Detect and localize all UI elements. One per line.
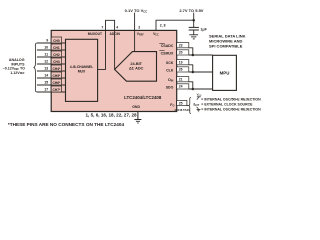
- wire analog input to pin 13 / CH4: [37, 70, 66, 72]
- svg-text:MUXOUT: MUXOUT: [88, 32, 102, 36]
- wire CSADC to junction: [189, 48, 193, 55]
- pin 10 number: [44, 46, 48, 50]
- pin name CH4* box: [51, 65, 61, 71]
- wire SCK to junction: [189, 65, 193, 72]
- svg-text:26: 26: [179, 68, 183, 72]
- pin 23 number box: [177, 43, 189, 48]
- svg-text:CH0: CH0: [53, 39, 60, 43]
- FO option 3 text: [201, 107, 261, 111]
- junction node: [192, 71, 195, 74]
- wire analog input to pin 15 / CH6: [37, 84, 66, 86]
- svg-text:14: 14: [44, 74, 48, 78]
- pin label MUXOUT: [88, 32, 102, 36]
- capacitor C1 1uF: [189, 27, 208, 31]
- pin name CH7* box: [51, 86, 61, 92]
- svg-text:1, 5, 6, 16, 18, 22, 27, 28: 1, 5, 6, 16, 18, 22, 27, 28: [86, 113, 138, 118]
- wire analog input to pin 12 / CH3: [37, 63, 66, 65]
- pin label ADCIN: [110, 32, 121, 36]
- node 2.7V TO 5.5V supply label: [179, 8, 203, 13]
- wire CLK to MPU: [189, 71, 213, 73]
- svg-text:9: 9: [46, 39, 48, 43]
- svg-text:0.1V TO VCC: 0.1V TO VCC: [125, 8, 148, 13]
- junction node: [192, 88, 195, 91]
- wire analog input to pin 17 / CH7: [37, 91, 66, 93]
- svg-text:1μF: 1μF: [200, 27, 207, 31]
- svg-text:25: 25: [179, 102, 183, 106]
- pin label VCC: [153, 32, 159, 36]
- ground symbol at capacitor: [189, 35, 198, 39]
- pin 13 number: [44, 67, 48, 71]
- svg-text:= INTERNAL OSC/50Hz REJECTION: = INTERNAL OSC/50Hz REJECTION: [201, 98, 261, 102]
- svg-text:SDO: SDO: [166, 85, 174, 89]
- pin label CLK: [166, 68, 174, 72]
- wire MUX output to MUXOUT pin 7: [98, 30, 106, 69]
- wire capacitor to ground: [193, 30, 195, 35]
- svg-text:CH7*: CH7*: [52, 88, 61, 92]
- svg-text:24: 24: [179, 85, 183, 89]
- svg-text:19: 19: [179, 61, 183, 65]
- svg-text:4: 4: [116, 26, 118, 30]
- svg-text:12: 12: [44, 60, 48, 64]
- svg-text:10: 10: [44, 46, 48, 50]
- wire SDO to MPU: [189, 88, 213, 90]
- node 0.1V TO VCC label: [125, 8, 148, 13]
- pin 20 number box: [177, 50, 189, 55]
- wire supply vertical: [193, 13, 195, 27]
- pin name CH2 box: [51, 51, 61, 57]
- wire analog input to pin 9 / CH0: [37, 42, 66, 44]
- pin name CH5* box: [51, 72, 61, 78]
- wire FO to options brace: [187, 105, 188, 107]
- svg-text:CSMUX: CSMUX: [161, 51, 174, 55]
- serial data link annotation: [209, 34, 246, 49]
- MPU U2: [213, 55, 237, 90]
- junction node: [192, 54, 195, 57]
- pin label SDO: [166, 85, 174, 89]
- svg-text:CH5*: CH5*: [52, 74, 61, 78]
- svg-text:15: 15: [44, 81, 48, 85]
- svg-text:11: 11: [44, 53, 48, 57]
- pin label GND: [132, 105, 140, 109]
- wire CSMUX to MPU: [189, 54, 213, 56]
- GND pin list: [86, 113, 138, 118]
- pin label CSADC: [159, 44, 173, 49]
- svg-text:VREF: VREF: [137, 32, 145, 36]
- ground symbol at GND pin: [134, 120, 141, 124]
- pin label VREF: [137, 32, 145, 36]
- adc block 24-BIT delta-sigma ADC: [115, 52, 157, 82]
- note NC pins on LTC2404: [8, 122, 125, 127]
- svg-text:= EXTERNAL CLOCK SOURCE: = EXTERNAL CLOCK SOURCE: [201, 102, 253, 106]
- svg-text:2.7V TO 5.5V: 2.7V TO 5.5V: [179, 8, 203, 13]
- svg-text:24-BITΔΣ ADC: 24-BITΔΣ ADC: [129, 62, 144, 70]
- svg-text:17: 17: [44, 88, 48, 92]
- wire external loop MUXOUT to ADCIN: [106, 20, 115, 30]
- pin 2, 8 number: [160, 24, 166, 28]
- pin name CH0 box: [51, 37, 61, 43]
- pin label DIN: [168, 78, 173, 82]
- wire GND pin to ground: [137, 112, 139, 120]
- svg-text:ANALOGINPUTS–0.12VREF TO1.12VR: ANALOGINPUTS–0.12VREF TO1.12VREF: [3, 58, 25, 75]
- pin label SCK: [166, 61, 174, 65]
- svg-text:ADCIN: ADCIN: [110, 32, 121, 36]
- svg-text:CSADC: CSADC: [161, 44, 174, 48]
- svg-text:DIN: DIN: [168, 78, 173, 82]
- wire analog input to pin 14 / CH5: [37, 77, 66, 79]
- svg-text:SCK: SCK: [166, 61, 174, 65]
- analog inputs annotation text: [3, 58, 25, 75]
- svg-text:CH2: CH2: [53, 53, 60, 57]
- svg-text:CH4*: CH4*: [52, 67, 61, 71]
- IC U1 LTC2404/LTC2408 body: [51, 30, 177, 111]
- pin 9 number: [46, 39, 48, 43]
- svg-text:7: 7: [101, 26, 103, 30]
- svg-text:13: 13: [44, 67, 48, 71]
- pin 26 number box: [177, 67, 189, 72]
- wire VREF pin 3 to ADC top: [134, 13, 136, 52]
- svg-text:23: 23: [179, 44, 183, 48]
- svg-text:20: 20: [179, 51, 183, 55]
- svg-text:CH3: CH3: [53, 60, 60, 64]
- IC name label LTC2404/LTC2408: [124, 95, 162, 100]
- pin name CH3 box: [51, 58, 61, 64]
- junction supply node: [192, 19, 195, 22]
- pin 12 number: [44, 60, 48, 64]
- pin 21 number box: [177, 77, 189, 82]
- svg-text:GND: GND: [132, 105, 140, 109]
- FO option VCC symbol: [197, 93, 202, 100]
- pin 25 number box: [177, 100, 187, 105]
- svg-text:21: 21: [179, 78, 183, 82]
- mux block 4-/8-CHANNEL MUX: [66, 39, 98, 101]
- svg-text:MPU: MPU: [220, 70, 230, 75]
- svg-text:24048 TA01: 24048 TA01: [175, 108, 191, 112]
- svg-text:FO: FO: [170, 103, 174, 107]
- pin label CSMUX: [159, 51, 174, 56]
- svg-text:LTC2404/LTC2408: LTC2404/LTC2408: [124, 95, 162, 100]
- pin label FO: [170, 103, 174, 107]
- svg-text:= INTERNAL OSC/60Hz REJECTION: = INTERNAL OSC/60Hz REJECTION: [201, 107, 261, 111]
- brace for analog inputs: [34, 43, 37, 92]
- svg-text:VCC: VCC: [153, 32, 159, 36]
- svg-text:*THESE PINS ARE NO CONNECTS ON: *THESE PINS ARE NO CONNECTS ON THE LTC24…: [8, 122, 125, 127]
- FO option 3 ground symbol: [197, 107, 201, 112]
- svg-text:SERIAL DATA LINKMICROWIRE ANDS: SERIAL DATA LINKMICROWIRE ANDSPI COMPATI…: [209, 34, 246, 49]
- pin 4 number: [116, 26, 118, 30]
- svg-text:3: 3: [138, 25, 140, 29]
- wire ADCIN pin 4 down to ADC input: [114, 30, 116, 69]
- svg-text:fEXT: fEXT: [193, 102, 199, 106]
- pin 24 number box: [177, 84, 189, 89]
- pin 19 number box: [177, 60, 189, 65]
- wire analog input to pin 11 / CH2: [37, 56, 66, 58]
- pin 17 number: [44, 88, 48, 92]
- pin 14 number: [44, 74, 48, 78]
- wire analog input to pin 10 / CH1: [37, 49, 66, 51]
- pin 11 number: [44, 53, 48, 57]
- pin 15 number: [44, 81, 48, 85]
- figure id: [175, 108, 191, 112]
- svg-text:2, 8: 2, 8: [160, 24, 166, 28]
- brace for FO options: [188, 97, 190, 114]
- pin name CH6* box: [51, 79, 61, 85]
- FO option 2 fEXT: [193, 102, 253, 106]
- pin 7 number: [101, 26, 103, 30]
- svg-text:CH1: CH1: [53, 46, 60, 50]
- FO option 1 text: [201, 98, 261, 102]
- svg-text:CH6*: CH6*: [52, 81, 61, 85]
- wire VCC supply rail to pins 2,8: [156, 20, 194, 30]
- svg-text:CLK: CLK: [166, 68, 174, 72]
- wire DIN to junction: [189, 82, 193, 89]
- pin 3 number: [138, 25, 140, 29]
- pin name CH1 box: [51, 44, 61, 50]
